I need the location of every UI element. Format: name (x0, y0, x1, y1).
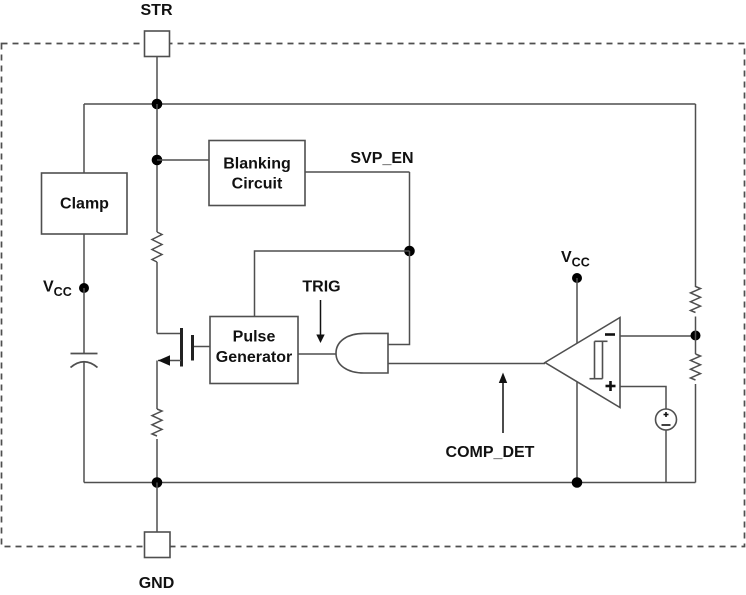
Q1 gate bar (191, 335, 194, 361)
svg-text:Clamp: Clamp (60, 196, 109, 213)
wire to Blanking Circuit input (157, 159, 209, 161)
wire bottom rail (84, 482, 696, 484)
U3 hysteresis symbol (590, 341, 608, 378)
wire R4 to bottom rail (156, 439, 158, 483)
gate U2 (AND, mirrored) (336, 333, 388, 373)
node junction top (STR rail) (152, 99, 163, 110)
Q1 channel bar (180, 328, 183, 367)
node junction SVP_EN (404, 246, 415, 257)
block Blanking Circuit (209, 141, 305, 206)
resistor R1 (152, 232, 162, 262)
wire left drop to Clamp (83, 104, 85, 173)
svg-text:STR: STR (141, 2, 173, 19)
wire SVP_EN horizontal (305, 171, 410, 173)
U3 plus label (606, 381, 616, 391)
U3 minus label (605, 333, 615, 336)
svg-text:Generator: Generator (216, 349, 292, 366)
svg-text:GND: GND (139, 575, 175, 592)
wire Vcc node to capacitor (83, 288, 85, 354)
wire GND stub (156, 483, 158, 533)
wire source to R4 (156, 361, 158, 410)
Q1 source stub (158, 360, 181, 362)
svg-text:TRIG: TRIG (302, 279, 340, 296)
svg-text:SVP_EN: SVP_EN (350, 150, 413, 167)
arrow TRIG (320, 300, 322, 335)
wire Clamp to Vcc node (83, 234, 85, 288)
current source I1 (656, 409, 677, 430)
node junction bottom (Vcc line) (572, 477, 583, 488)
Q1 source arrow (158, 355, 170, 365)
svg-text:Circuit: Circuit (232, 176, 283, 193)
pin STR (145, 31, 170, 57)
capacitor C1 (71, 354, 98, 368)
resistor R2 (691, 287, 701, 313)
wire plus input (620, 387, 666, 410)
wire minus input (620, 335, 696, 337)
wire Pulse Generator output to AND gate (298, 353, 336, 355)
block Clamp (42, 173, 128, 234)
wire R3 to bottom rail (695, 384, 697, 483)
arrow COMP_DET (502, 382, 504, 433)
wire SVP_EN down to AND gate (388, 251, 410, 345)
wire top rail (84, 103, 696, 105)
wire SVP_EN vertical (409, 172, 411, 251)
transistor Q1 (MOSFET) (157, 328, 193, 367)
block Pulse Generator (210, 317, 298, 384)
wire R1 to MOSFET drain (156, 262, 158, 334)
node junction resistor divider (691, 331, 701, 341)
op-amp U3 (comparator) (545, 318, 620, 408)
wire Vcc right down to bottom rail (576, 278, 578, 483)
svg-text:Pulse: Pulse (233, 329, 276, 346)
svg-text:Blanking: Blanking (223, 156, 291, 173)
wire feedback to Pulse Generator top (255, 251, 410, 317)
wire STR stub (156, 57, 158, 105)
wire MOSFET gate to Pulse Generator (194, 346, 211, 348)
resistor R4 (152, 409, 162, 436)
node Vcc right (572, 273, 582, 283)
wire R2 to node (695, 317, 697, 355)
node Vcc left (79, 283, 89, 293)
svg-text:COMP_DET: COMP_DET (446, 444, 535, 461)
wire right rail upper (695, 104, 697, 287)
wire current source to bottom rail (665, 430, 667, 483)
resistor R3 (691, 354, 701, 380)
wire main vertical under STR (156, 104, 158, 232)
wire AND output to comparator (388, 363, 545, 365)
node junction bottom left (152, 477, 163, 488)
wire capacitor to bottom rail (83, 362, 85, 483)
node junction Blanking tap (152, 155, 163, 166)
Q1 drain stub (157, 333, 181, 335)
pin GND (145, 532, 171, 558)
